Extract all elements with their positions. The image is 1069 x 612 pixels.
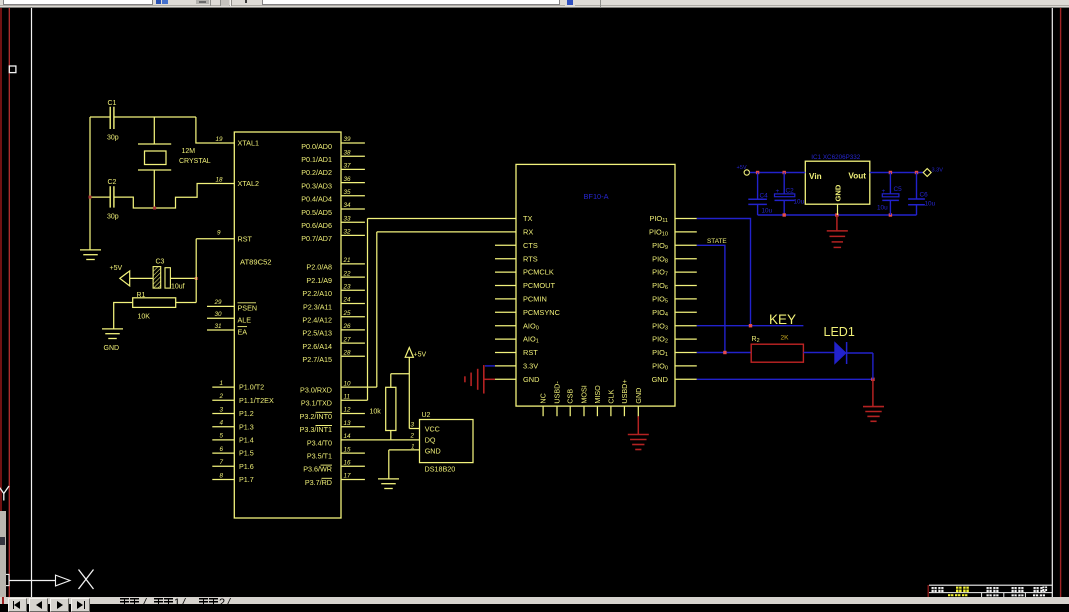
svg-text:P3.2/INT0: P3.2/INT0 (300, 412, 332, 421)
svg-text:RST: RST (523, 348, 538, 357)
svg-text:PCMOUT: PCMOUT (523, 281, 556, 290)
svg-text:8: 8 (220, 472, 224, 479)
svg-text:P3.0/RXD: P3.0/RXD (300, 386, 332, 395)
svg-text:15: 15 (344, 446, 352, 453)
svg-text:RTS: RTS (523, 254, 538, 263)
svg-text:5: 5 (220, 433, 224, 440)
svg-text:27: 27 (343, 336, 352, 343)
svg-text:P1.6: P1.6 (239, 462, 254, 471)
svg-text:+5V: +5V (414, 352, 427, 359)
svg-text:GND: GND (425, 446, 441, 455)
svg-text:C2: C2 (786, 188, 795, 195)
svg-text:MOSI: MOSI (580, 385, 589, 403)
svg-text:LED1: LED1 (824, 325, 855, 339)
svg-text:BF10-A: BF10-A (584, 192, 609, 201)
svg-text:+: + (776, 188, 780, 195)
svg-text:29: 29 (214, 299, 223, 306)
svg-text:16: 16 (344, 460, 352, 467)
svg-text:21: 21 (343, 257, 351, 264)
svg-text:C1: C1 (108, 100, 117, 107)
svg-text:GND: GND (104, 345, 120, 352)
svg-text:CSB: CSB (566, 389, 575, 404)
svg-text:28: 28 (343, 350, 352, 357)
svg-text:30p: 30p (107, 214, 119, 221)
svg-text:39: 39 (344, 136, 352, 143)
svg-text:10u: 10u (925, 201, 936, 208)
svg-text:AT89C52: AT89C52 (240, 258, 272, 267)
svg-text:C3: C3 (156, 259, 165, 266)
svg-text:13: 13 (344, 420, 352, 427)
svg-text:DS18B20: DS18B20 (425, 465, 456, 474)
svg-text:P1.3: P1.3 (239, 422, 254, 431)
svg-text:VCC: VCC (425, 424, 440, 433)
svg-text:P1.0/T2: P1.0/T2 (239, 383, 264, 392)
svg-text:P1.5: P1.5 (239, 449, 254, 458)
svg-text:P2.7/A15: P2.7/A15 (302, 355, 332, 364)
svg-text:P1.4: P1.4 (239, 436, 254, 445)
svg-text:P1.7: P1.7 (239, 475, 254, 484)
svg-text:3.3V: 3.3V (932, 168, 944, 174)
svg-text:10u: 10u (877, 205, 888, 212)
svg-text:P2.6/A14: P2.6/A14 (302, 342, 332, 351)
svg-text:USBD+: USBD+ (620, 379, 629, 403)
svg-text:Vout: Vout (848, 172, 866, 181)
svg-text:IC1 XC6206P332: IC1 XC6206P332 (811, 154, 861, 161)
svg-text:TX: TX (523, 214, 533, 223)
svg-text:XTAL2: XTAL2 (238, 179, 259, 188)
svg-text:P2.3/A11: P2.3/A11 (303, 302, 332, 311)
svg-text:33: 33 (344, 215, 352, 222)
svg-text:PCMSYNC: PCMSYNC (523, 308, 561, 317)
svg-text:U2: U2 (422, 412, 431, 419)
svg-text:2K: 2K (781, 335, 790, 342)
svg-text:3: 3 (411, 422, 415, 429)
svg-text:P1.2: P1.2 (239, 409, 254, 418)
svg-text:DQ: DQ (425, 436, 436, 445)
svg-text:P0.4/AD4: P0.4/AD4 (301, 195, 332, 204)
svg-text:37: 37 (344, 163, 352, 170)
svg-text:P0.6/AD6: P0.6/AD6 (301, 221, 332, 230)
svg-text:C5: C5 (894, 186, 903, 193)
svg-text:PSEN: PSEN (238, 304, 258, 313)
svg-text:P3.7/RD: P3.7/RD (305, 478, 332, 487)
svg-text:12M: 12M (182, 148, 196, 155)
svg-text:C4: C4 (760, 193, 769, 200)
svg-text:24: 24 (343, 297, 352, 304)
svg-text:USBD-: USBD- (553, 381, 562, 404)
svg-text:MISO: MISO (593, 385, 602, 404)
svg-text:10u: 10u (794, 199, 805, 206)
svg-text:+5V: +5V (110, 265, 123, 272)
svg-text:10u: 10u (762, 208, 773, 215)
svg-text:10k: 10k (370, 409, 382, 416)
svg-text:12: 12 (344, 407, 352, 414)
svg-text:C6: C6 (920, 192, 929, 199)
svg-text:PCMCLK: PCMCLK (523, 268, 554, 277)
svg-text:11: 11 (344, 394, 351, 401)
svg-text:RX: RX (523, 228, 533, 237)
svg-text:36: 36 (344, 176, 352, 183)
svg-text:7: 7 (220, 459, 224, 466)
svg-text:6: 6 (220, 446, 224, 453)
svg-text:10uf: 10uf (171, 284, 185, 291)
svg-text:PCMIN: PCMIN (523, 295, 547, 304)
svg-text:32: 32 (344, 229, 352, 236)
svg-text:P0.7/AD7: P0.7/AD7 (301, 234, 332, 243)
svg-text:P3.4/T0: P3.4/T0 (307, 438, 332, 447)
svg-text:P2.2/A10: P2.2/A10 (302, 289, 332, 298)
svg-text:23: 23 (343, 284, 352, 291)
svg-text:P1.1/T2EX: P1.1/T2EX (239, 396, 274, 405)
svg-text:P3.1/TXD: P3.1/TXD (301, 399, 332, 408)
svg-text:+5V: +5V (737, 165, 747, 171)
svg-text:P2.5/A13: P2.5/A13 (302, 329, 332, 338)
svg-text:9: 9 (217, 229, 221, 236)
svg-text:3: 3 (220, 406, 224, 413)
svg-text:38: 38 (344, 149, 352, 156)
svg-text:CTS: CTS (523, 241, 538, 250)
svg-text:26: 26 (343, 323, 352, 330)
svg-text:1: 1 (220, 380, 224, 387)
svg-text:XTAL1: XTAL1 (238, 139, 259, 148)
svg-text:2: 2 (219, 393, 224, 400)
svg-text:10K: 10K (138, 314, 151, 321)
svg-text:10: 10 (344, 380, 352, 387)
svg-text:34: 34 (344, 202, 352, 209)
svg-text:STATE: STATE (707, 238, 727, 245)
svg-text:EA: EA (238, 327, 248, 336)
svg-text:35: 35 (344, 189, 352, 196)
svg-text:25: 25 (343, 310, 352, 317)
svg-text:RST: RST (238, 235, 253, 244)
svg-text:14: 14 (344, 433, 352, 440)
svg-text:P2.0/A8: P2.0/A8 (306, 263, 332, 272)
svg-text:R1: R1 (137, 292, 146, 299)
svg-text:30p: 30p (107, 135, 119, 142)
svg-text:P0.1/AD1: P0.1/AD1 (301, 155, 332, 164)
svg-text:P0.3/AD3: P0.3/AD3 (301, 181, 332, 190)
svg-text:19: 19 (216, 136, 224, 143)
svg-text:C2: C2 (108, 179, 117, 186)
svg-text:CLK: CLK (606, 389, 615, 403)
svg-text:CRYSTAL: CRYSTAL (179, 158, 211, 165)
svg-text:KEY: KEY (769, 312, 796, 327)
svg-text:P3.6/WR: P3.6/WR (303, 465, 332, 474)
svg-text:22: 22 (343, 270, 352, 277)
svg-text:P2.1/A9: P2.1/A9 (306, 276, 332, 285)
svg-text:P3.5/T1: P3.5/T1 (307, 452, 332, 461)
svg-text:P0.0/AD0: P0.0/AD0 (301, 142, 332, 151)
svg-text:GND: GND (634, 388, 643, 404)
svg-text:17: 17 (344, 473, 352, 480)
svg-text:R2: R2 (752, 336, 760, 344)
svg-text:30: 30 (215, 311, 223, 318)
svg-text:+: + (882, 188, 886, 195)
svg-text:NC: NC (539, 393, 548, 403)
svg-text:4: 4 (220, 420, 224, 427)
svg-text:GND: GND (834, 184, 843, 201)
svg-text:Vin: Vin (809, 172, 822, 181)
svg-text:P0.2/AD2: P0.2/AD2 (301, 168, 332, 177)
svg-text:P0.5/AD5: P0.5/AD5 (301, 208, 332, 217)
svg-text:GND: GND (523, 375, 539, 384)
svg-text:31: 31 (215, 323, 222, 330)
svg-text:ALE: ALE (238, 315, 252, 324)
svg-text:2: 2 (410, 433, 415, 440)
svg-text:3.3V: 3.3V (523, 362, 538, 371)
svg-text:18: 18 (216, 176, 224, 183)
svg-text:GND: GND (652, 375, 668, 384)
svg-text:P2.4/A12: P2.4/A12 (302, 316, 332, 325)
svg-text:P3.3/INT1: P3.3/INT1 (300, 425, 332, 434)
